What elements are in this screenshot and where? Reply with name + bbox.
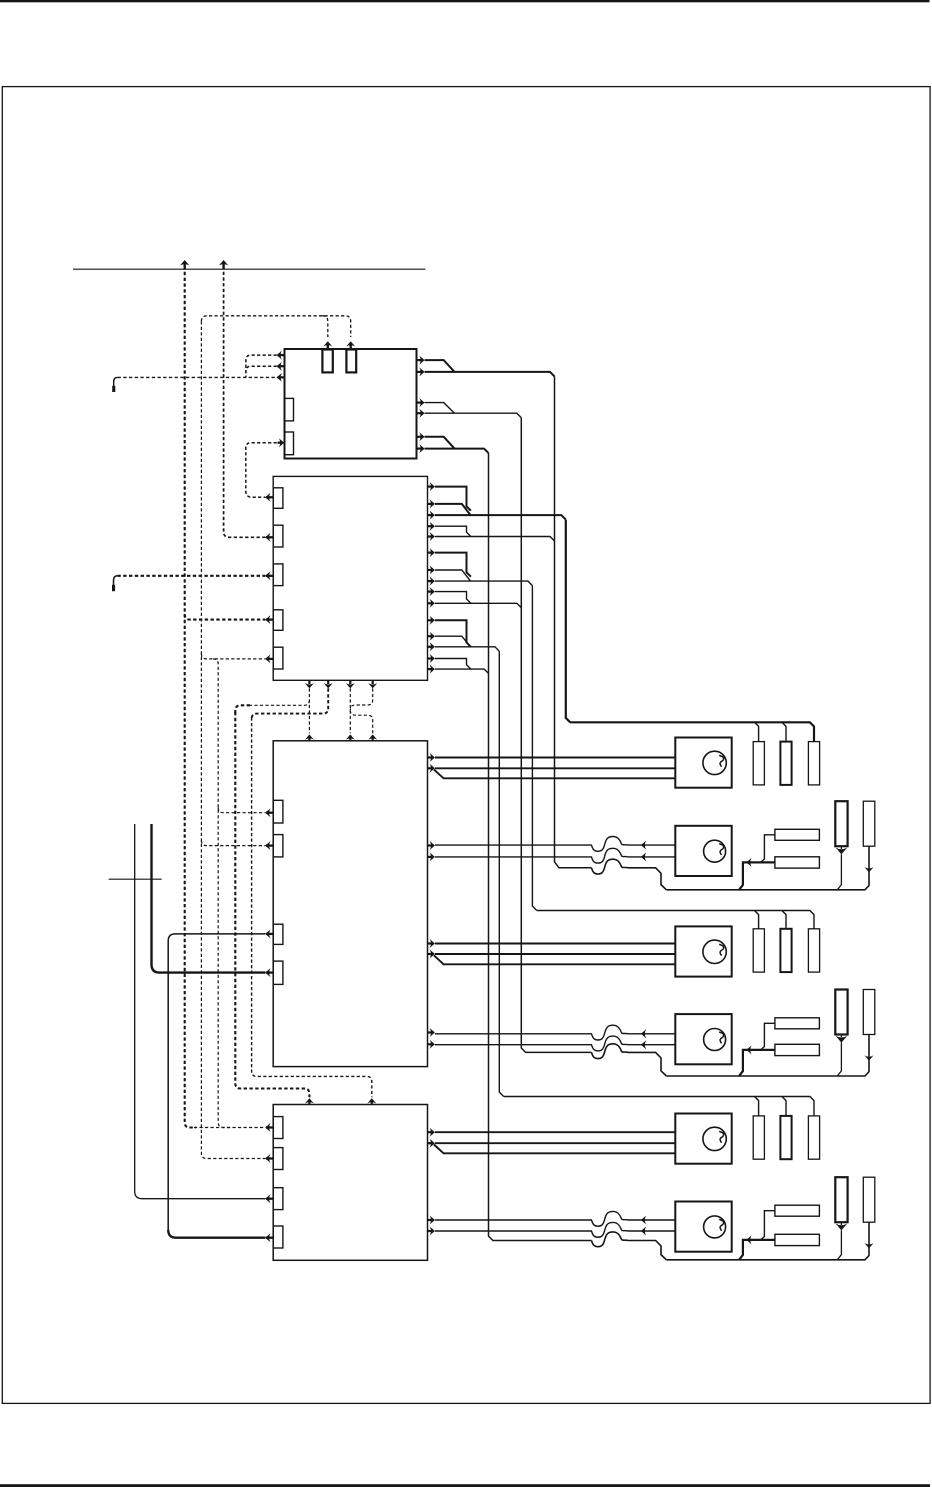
U4 left edge connector rect 2	[273, 1148, 283, 1170]
U2 left pin arrow y=537.3	[265, 533, 270, 542]
U1 right pin arrow y=371.9	[419, 367, 424, 376]
U2 right pin arrow y=658.5	[430, 654, 435, 663]
fan unit F6 motor circle	[704, 1216, 726, 1238]
F5 connector rect 2	[780, 1116, 791, 1159]
U2 group E wire1	[435, 592, 471, 604]
U4 left pin arrow y=1198.7	[265, 1194, 270, 1203]
F4 sensor wire 2 with wavy section	[435, 1036, 675, 1051]
U2 group B wire3 merging to cable C532	[435, 581, 533, 586]
U2 bottom pin arrow x=328.2	[324, 683, 333, 688]
F2 horizontal connector rect 1	[775, 829, 820, 840]
dashed link U2 pin x372 merging into V350	[350, 688, 372, 710]
fan unit F5 motor circle	[703, 1127, 726, 1150]
U3 right pin arrow y=768.3	[430, 764, 435, 773]
fan unit F4 motor circle	[704, 1029, 726, 1051]
U4 top pin arrow x=309.4	[305, 1098, 314, 1103]
U2 bottom pin arrow x=309.4	[305, 683, 314, 688]
U2 right pin arrow y=515.1	[430, 511, 435, 520]
F4 tall connector rect RV2	[863, 990, 875, 1035]
U1 right pin arrow y=436.8	[419, 432, 424, 441]
fan unit F4 box	[675, 1014, 731, 1064]
F2 harness direction arrow	[746, 858, 751, 867]
U2 right pin arrow y=591.6	[430, 587, 435, 596]
up arrow into slot rail at U1 slot1	[323, 341, 332, 346]
F2 tall connector rect RV2	[863, 801, 875, 846]
U1 top slot connector 2	[346, 350, 356, 373]
F3 connector rect 1	[753, 929, 764, 972]
U2 left edge connector rect 3	[273, 564, 283, 586]
F6 bottom return run	[666, 1256, 869, 1260]
dashed link U2 pin x328 jog to bus V251	[252, 688, 329, 718]
U3 left edge connector rect 2	[273, 835, 283, 857]
F3 supply wire 3 split from pin 2	[434, 955, 675, 964]
dashed branch from V309 left to bus V236	[249, 700, 309, 705]
F3 connector rect 3	[808, 929, 819, 972]
U2 group C wire2	[435, 636, 471, 647]
U4 left edge connector rect 3	[273, 1188, 283, 1210]
F4 sensor wire 1 with wavy section	[435, 1025, 675, 1040]
dashed wire into U4 rect1 (from V184/V218)	[194, 1127, 265, 1129]
fan unit F5 motor squiggle	[719, 1131, 723, 1142]
U4 top pin arrow x=371.8	[367, 1098, 376, 1103]
ECU block U2	[273, 476, 427, 680]
F6 RV1 drop wire with arrow	[837, 1222, 841, 1260]
U4 right pin arrow y=1231.0	[430, 1227, 435, 1236]
F6 return wire 3 wavy section and jog to bottom run	[592, 1232, 667, 1260]
U4 left pin arrow y=1158.5	[265, 1154, 270, 1163]
F1 feeder drop 2	[782, 722, 786, 741]
F5 feeder harness from ECU cable	[504, 1097, 814, 1116]
F1 connector rect 2	[780, 742, 791, 785]
F6 wire1 direction arrow	[641, 1216, 646, 1225]
F2 RV1 drop wire with arrow	[837, 846, 841, 890]
U3 right pin arrow y=1032.5	[430, 1028, 435, 1037]
F3 feeder drop 1	[755, 911, 759, 929]
U1 pair1 wire a	[425, 360, 455, 372]
U4 left pin arrow y=1237.7	[265, 1233, 270, 1242]
F4 rect1 wire to harness	[761, 1023, 775, 1050]
fan unit F1 motor circle	[703, 751, 726, 774]
U2 group C wire1	[435, 620, 471, 647]
terminator T1 stub	[112, 386, 115, 392]
U2 left pin arrow y=575.8	[265, 571, 270, 580]
U2 right pin arrow y=526.2	[430, 522, 435, 531]
ECU block U4	[273, 1105, 427, 1261]
dashed split from V350 to U3 top pin x372	[350, 710, 372, 733]
U1 right pin arrow y=360.1	[419, 356, 424, 365]
U1 left edge connector rect B	[285, 432, 294, 455]
F6 horizontal connector rect 2	[775, 1234, 820, 1245]
F1 supply wire 1	[435, 757, 675, 759]
F6 harness direction arrow	[746, 1235, 751, 1244]
terminator T2 stub	[112, 585, 115, 591]
F6 tall connector rect RV1	[835, 1177, 847, 1222]
F3 supply wire 2	[435, 953, 675, 955]
F2 horizontal connector rect 2	[775, 857, 820, 868]
U2 right pin arrow y=581.1	[430, 577, 435, 586]
U3 right pin arrow y=856.9	[430, 852, 435, 861]
U2 group A wire2	[435, 504, 471, 515]
bus wire V184 (thick dashed, rail to U4 rect1)	[185, 266, 196, 1128]
solid wire S1 from stub down to U4 rect3	[135, 824, 266, 1199]
dashed bus V251 down to U4 top pin x372	[252, 718, 372, 1098]
solid wire S3 U3 rect3 down to U4 rect4	[168, 934, 265, 1233]
U1 pair2 wire b merging to cable C521	[425, 413, 522, 418]
up arrow into rail from bus V223	[219, 260, 228, 266]
U3 right pin arrow y=845.5	[430, 841, 435, 850]
fan unit F1 motor squiggle	[719, 755, 723, 766]
U1 left pin arrow y=377.4	[277, 373, 282, 382]
dashed wire: U1 lower-left rect to U2 rect1	[246, 443, 277, 498]
U2 right pin arrow y=536.5	[430, 532, 435, 541]
F4 return wire 3 wavy section and jog to bottom run	[592, 1044, 667, 1076]
branch of V201 to U2 rect5	[201, 654, 265, 659]
thick dashed wire from T2 to U2 rect3	[117, 575, 265, 577]
F4 bottom return run	[666, 1072, 869, 1076]
F4 horizontal connector rect 1	[775, 1018, 820, 1029]
F6 sensor wire 2 with wavy section	[435, 1222, 675, 1237]
fan unit F2 motor circle	[704, 840, 726, 862]
U4 right pin arrow y=1143.2	[430, 1139, 435, 1148]
U3 left edge connector rect 1	[273, 800, 283, 823]
U2 group A wire3 merging to cable C566	[435, 515, 566, 520]
junction wire: U1 left pin1 to node V246	[246, 355, 277, 377]
U2 group F wire2 merging into cable C489	[435, 669, 489, 673]
F1 feeder drop 1	[755, 722, 759, 741]
U3 left pin arrow y=812.7	[265, 808, 270, 817]
F3 supply wire 1	[435, 943, 675, 945]
F2 sensor wire 1 with wavy section	[435, 837, 675, 852]
cable C499 vertical (U2 pins11-13) to fan F5 connector feeder	[499, 651, 503, 1096]
U4 left edge connector rect 4	[273, 1226, 283, 1248]
F1 connector rect 1	[753, 742, 764, 785]
U1 right pin arrow y=413.2	[419, 409, 424, 418]
U2 right pin arrow y=620.3	[430, 616, 435, 625]
F5 supply wire 2	[435, 1142, 675, 1144]
F2 wire1 direction arrow	[641, 841, 646, 850]
U2 group D wire2 merging into cable C555	[435, 537, 555, 541]
F4 thick harness wire from rect2 down to run	[739, 1050, 775, 1076]
F2 thick harness wire from rect2 down to run	[739, 862, 775, 889]
F4 wire2 direction arrow	[641, 1040, 646, 1049]
F5 connector rect 1	[753, 1116, 764, 1159]
fan unit F1 box	[675, 738, 731, 788]
branch of V184 to U2 rect4	[185, 614, 266, 619]
U3 right pin arrow y=1044.3	[430, 1040, 435, 1049]
F3 feeder drop 2	[782, 911, 786, 929]
U2 left pin arrow y=619.6	[265, 615, 270, 624]
U3 left pin arrow y=845.6	[265, 841, 270, 850]
thick dashed bus V236 down to U4 top pin x309	[235, 712, 309, 1097]
bus wire V223 (rail to U2 rect2)	[224, 266, 266, 537]
U3 right pin arrow y=943.5	[430, 939, 435, 948]
F1 supply wire 2	[435, 767, 675, 769]
cable C555 vertical (U1 pair1 + U2 pins4,5) to fan F2 wire3	[555, 376, 592, 867]
U2 group B wire1	[435, 553, 471, 577]
ECU block U1	[285, 349, 417, 459]
U1 right pin arrow y=448.6	[419, 444, 424, 453]
U1 left pin arrow y=355.1	[277, 351, 282, 360]
U1 lower-left in-arrow	[279, 438, 284, 447]
U2 right pin arrow y=636.2	[430, 632, 435, 641]
fan unit F5 box	[675, 1114, 731, 1164]
U1 pair1 wire b merging to cable C555	[425, 372, 555, 377]
fan unit F4 motor squiggle	[719, 1032, 723, 1043]
fan unit F6 box	[675, 1202, 731, 1252]
F4 RV1 drop wire with arrow	[837, 1035, 841, 1077]
U3 right pin arrow y=954.0	[430, 950, 435, 959]
F6 rect1 wire to harness	[761, 1211, 775, 1240]
F2 bottom return run	[666, 886, 869, 890]
U2 right pin arrow y=646.8	[430, 642, 435, 651]
U4 right pin arrow y=1220.0	[430, 1216, 435, 1225]
dashed link U2 pin x350 to U3 top pin x350	[349, 688, 351, 733]
U1 left pin arrow y=366.2	[277, 362, 282, 371]
fan unit F3 motor squiggle	[719, 944, 723, 955]
U3 top pin arrow x=309.4	[305, 734, 314, 739]
U2 group E wire2 merging into cable C521	[435, 603, 521, 607]
F4 tall connector rect RV1	[835, 990, 847, 1035]
F3 connector rect 2	[780, 929, 791, 972]
bus wire V218 (from U2 rect5 wire down to U4 rect1)	[213, 659, 230, 1128]
U2 bottom pin arrow x=350.3	[346, 683, 355, 688]
U2 right pin arrow y=669.1	[430, 665, 435, 674]
thick solid wire S2 from stub down to U3 rect4	[152, 824, 266, 973]
U2 left edge connector rect 5	[273, 647, 283, 669]
U2 left pin arrow y=497.3	[265, 493, 270, 502]
U3 right pin arrow y=757.5	[430, 753, 435, 762]
F6 tall connector rect RV2	[863, 1177, 875, 1222]
drop of slot rail to U1 slot 1	[322, 316, 328, 337]
F2 wire2 direction arrow	[641, 852, 646, 861]
fan unit F6 motor squiggle	[719, 1219, 723, 1230]
F6 thick harness wire from rect2 down to run	[739, 1240, 775, 1260]
F3 feeder harness from ECU cable	[537, 911, 814, 929]
F6 sensor wire 1 with wavy section	[435, 1211, 675, 1226]
U2 left edge connector rect 2	[273, 525, 283, 547]
F5 feeder drop 2	[782, 1097, 786, 1116]
fan unit F3 motor circle	[703, 940, 726, 963]
U1 pair2 wire a	[425, 403, 455, 414]
F6 wire2 direction arrow	[641, 1227, 646, 1236]
bottom page rule	[0, 1484, 930, 1487]
left cross tick line	[109, 878, 162, 880]
U2 group F wire1	[435, 659, 471, 670]
F4 horizontal connector rect 2	[775, 1044, 820, 1055]
bus wire V201 (slot rail to U4 rect2)	[201, 321, 265, 1158]
F6 horizontal connector rect 1	[775, 1205, 820, 1216]
F1 feeder harness from ECU cable	[570, 722, 814, 741]
U3 left edge connector rect 4	[273, 961, 283, 984]
F4 wire1 direction arrow	[641, 1029, 646, 1038]
F2 return wire 3 wavy section and jog to bottom run	[592, 859, 667, 890]
F4 RV2 drop wire with arrow	[868, 1035, 870, 1073]
U3 top pin arrow x=372.7	[368, 734, 377, 739]
F2 RV2 drop wire with arrow	[868, 846, 870, 886]
fan unit F2 motor squiggle	[719, 844, 723, 855]
F5 connector rect 3	[808, 1116, 819, 1159]
F6 RV2 drop wire with arrow	[868, 1222, 870, 1256]
thick solid wire end into U4 rect4	[168, 1230, 265, 1238]
fan unit F3 box	[675, 926, 731, 976]
junction wire: U1 left pin2 merging into node V246	[246, 366, 277, 371]
U3 left pin arrow y=972.6	[265, 968, 270, 977]
U1 left edge connector rect A	[285, 398, 294, 421]
dashed link U2 pin to U3 top pin x309	[308, 688, 310, 733]
F2 rect1 wire to harness	[761, 835, 775, 863]
F5 supply wire 3 split from pin 2	[434, 1145, 675, 1154]
U2 right pin arrow y=570.0	[430, 566, 435, 575]
cable C532 vertical (U2 pins6-8) to fan F3 connector feeder	[532, 586, 536, 911]
ECU block U3	[273, 741, 427, 1067]
U1 pair3 wire b merging to cable C489	[425, 449, 489, 454]
U4 right pin arrow y=1132.2	[430, 1128, 435, 1137]
U3 left edge connector rect 3	[273, 924, 283, 944]
U3 left pin arrow y=933.9	[265, 929, 270, 938]
top page rule	[0, 0, 930, 2]
U2 group C wire3 merging to cable C499	[435, 647, 499, 652]
up arrow into slot rail at U1 slot2	[346, 341, 355, 346]
U1 pair3 wire a	[425, 437, 455, 449]
F5 supply wire 1	[435, 1131, 675, 1133]
cable C489 vertical (U1 pair3 + U2 pins14,15) to fan F6 wire3	[489, 453, 592, 1240]
U2 left pin arrow y=658.9	[265, 654, 270, 663]
branch of V218 to U3 rect1	[218, 808, 265, 813]
up arrow into rail from bus V184	[180, 260, 189, 266]
U2 group D wire1	[435, 526, 471, 536]
U2 group B wire2	[435, 570, 471, 581]
fan unit F2 box	[675, 826, 731, 876]
U3 top pin arrow x=350.3	[346, 734, 355, 739]
U1 right pin arrow y=402.6	[419, 398, 424, 407]
U2 bottom pin arrow x=372.7	[368, 683, 377, 688]
F1 connector rect 3	[808, 742, 819, 785]
U2 left edge connector rect 4	[273, 610, 283, 631]
U2 right pin arrow y=486.6	[430, 482, 435, 491]
U4 left pin arrow y=1127.5	[265, 1123, 270, 1132]
U2 left edge connector rect 1	[273, 488, 283, 509]
F2 sensor wire 2 with wavy section	[435, 848, 675, 863]
U1 top slot connector 1	[322, 350, 332, 373]
cable C521 vertical (U1 pair2 + U2 pins9,10) to fan F4 wire3	[521, 418, 591, 1053]
F5 feeder drop 1	[755, 1097, 759, 1116]
cable C566 vertical (U2 pins1-3) to fan F1 connector feeder	[566, 520, 570, 723]
U2 group A wire1	[435, 487, 471, 511]
F1 supply wire 3 split from pin 2	[434, 770, 675, 779]
dashed slot rail to U1 top connectors	[201, 316, 350, 337]
F2 tall connector rect RV1	[835, 801, 847, 846]
U2 right pin arrow y=603.3	[430, 599, 435, 608]
U4 left edge connector rect 1	[273, 1117, 283, 1139]
U2 right pin arrow y=503.9	[430, 499, 435, 508]
F4 harness direction arrow	[746, 1045, 751, 1054]
branch of V201 to U3 rect2	[201, 840, 265, 845]
U2 right pin arrow y=552.6	[430, 548, 435, 557]
power rail line	[73, 268, 426, 270]
dashed wire from T1 to U1 left pin 3	[118, 376, 277, 378]
